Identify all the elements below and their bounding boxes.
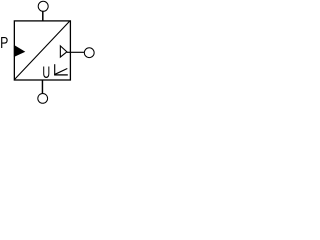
top supply lead wire <box>42 11 44 21</box>
output triangle (open) <box>60 46 67 57</box>
diagonal of transducer box <box>15 21 70 79</box>
characteristic symbol: horizontal axis <box>54 74 68 76</box>
characteristic symbol: rising ray <box>55 69 67 75</box>
input arrow (filled) on left edge <box>14 45 25 57</box>
transducer box U1 <box>14 21 70 80</box>
output lead wire <box>70 51 84 53</box>
top terminal circle <box>38 1 48 11</box>
characteristic symbol: vertical axis <box>54 64 56 75</box>
bottom terminal circle <box>38 94 48 104</box>
output terminal circle <box>84 48 94 58</box>
svg-text:U: U <box>42 64 50 82</box>
bottom supply lead wire <box>41 80 43 94</box>
svg-text:P: P <box>0 35 8 52</box>
wire from output triangle tip to box edge <box>67 51 70 53</box>
